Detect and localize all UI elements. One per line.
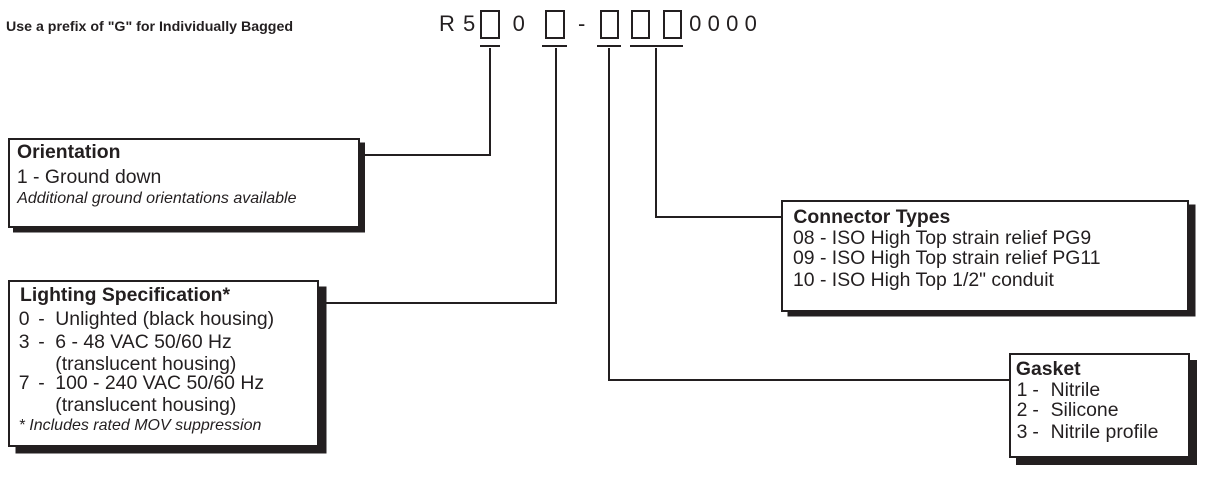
part number: letter R — [439, 13, 455, 35]
callout box: Lighting Specification — [8, 280, 320, 448]
wire: vertical from box 2 to Lighting callout — [555, 48, 557, 304]
part number digit box 1 (orientation) — [480, 10, 500, 39]
wire: vertical from box 1 to Orientation callout — [489, 48, 491, 156]
part number: dash — [578, 13, 585, 35]
part number: digit 0 — [513, 13, 525, 35]
wire: vertical from boxes 4+5 to Connector callout — [655, 48, 657, 219]
underline under box 3 — [597, 45, 622, 47]
underline under boxes 4+5 — [630, 45, 684, 47]
wire: horizontal into Connector callout — [655, 216, 782, 218]
part number: trailing 0 #4 — [745, 13, 757, 35]
header note — [6, 20, 293, 34]
underline under box 2 — [542, 45, 568, 47]
part number digit box 4 (connector) — [631, 10, 651, 39]
callout box: Orientation — [8, 138, 360, 228]
part number digit box 3 (gasket) — [600, 10, 620, 39]
underline under box 1 — [480, 45, 501, 47]
part number: digit 5 — [463, 13, 475, 35]
part number digit box 5 (connector) — [663, 10, 683, 39]
wire: horizontal into Gasket callout — [608, 379, 1010, 381]
part number: trailing 0 #2 — [708, 13, 720, 35]
wire: vertical from box 3 to Gasket callout — [608, 48, 610, 381]
callout box: Connector Types — [781, 200, 1189, 312]
part number: trailing 0 #1 — [689, 13, 701, 35]
part number digit box 2 (lighting) — [545, 10, 565, 39]
callout box: Gasket — [1009, 353, 1190, 459]
wire: horizontal into Lighting callout — [321, 302, 557, 304]
part number: trailing 0 #3 — [726, 13, 738, 35]
wire: horizontal into Orientation callout — [362, 154, 491, 156]
